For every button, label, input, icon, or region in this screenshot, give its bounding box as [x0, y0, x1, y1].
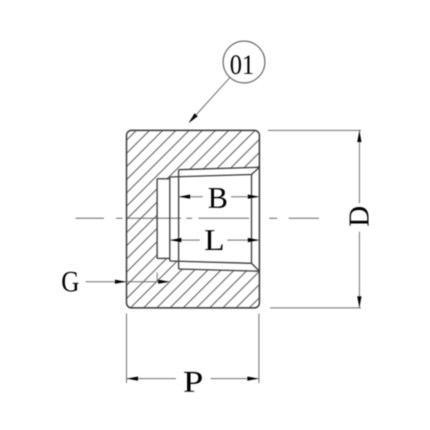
- section hatching of cap body: [0, 126, 430, 312]
- dimension P left extension line: [126, 314, 128, 384]
- arrowhead dimension L right: [248, 238, 260, 242]
- dimension P line left segment: [127, 378, 177, 380]
- full-thread end line (B datum): [178, 170, 180, 269]
- arrowhead dimension B right: [248, 195, 260, 199]
- arrowhead dimension B left: [179, 195, 191, 199]
- opening chamfer top: [252, 167, 260, 174]
- dimension P line right segment: [211, 378, 259, 380]
- witness tick on G leader: [156, 273, 158, 282]
- arrowhead dimension D top: [357, 131, 361, 143]
- dimension D top extension line: [268, 129, 361, 131]
- bore relief bottom edge: [157, 257, 170, 259]
- thread minor line bottom: [170, 261, 252, 263]
- dimension D line lower segment: [358, 232, 360, 308]
- centerline (horizontal dash-dot axis): [76, 217, 319, 219]
- arrowhead G leader at thread start: [158, 280, 170, 284]
- balloon label 01: [231, 55, 253, 74]
- arrowhead dimension L left: [170, 238, 182, 242]
- dimension P right extension line: [258, 314, 260, 384]
- dimension D bottom extension line: [270, 307, 361, 309]
- dimension B line right segment: [231, 196, 259, 198]
- label P (cap overall length): [184, 372, 202, 392]
- thread minor line top: [170, 175, 252, 178]
- dimension L line left segment: [170, 239, 200, 241]
- label G (thread size): [62, 272, 78, 292]
- cap body outline: [127, 130, 260, 308]
- chamfer start line: [251, 175, 253, 264]
- label D (outer diameter, rotated): [350, 207, 369, 226]
- thread major line bottom: [179, 269, 260, 271]
- internal thread bore outline: [157, 167, 259, 271]
- arrowhead dimension D bottom: [357, 296, 361, 308]
- leader line for G thread callout: [86, 281, 170, 283]
- arrowhead dimension P right: [247, 377, 259, 381]
- arrowhead dimension P left: [127, 377, 139, 381]
- arrowhead balloon leader: [188, 113, 197, 123]
- thread major line top: [179, 167, 260, 169]
- dimension L line right segment: [227, 239, 259, 241]
- balloon 01 circle: [223, 41, 265, 83]
- bore relief left end: [156, 179, 158, 259]
- dimension D line upper segment: [358, 131, 360, 204]
- arrowhead G leader at body edge: [115, 280, 127, 284]
- leader line of balloon 01: [191, 78, 230, 121]
- dimension B line left segment: [179, 196, 203, 198]
- bore relief top edge: [157, 178, 170, 180]
- thread start line (L datum): [169, 177, 171, 261]
- label B (effective thread length): [209, 188, 227, 208]
- opening chamfer bottom: [252, 263, 260, 271]
- label L (overall thread length): [205, 230, 223, 250]
